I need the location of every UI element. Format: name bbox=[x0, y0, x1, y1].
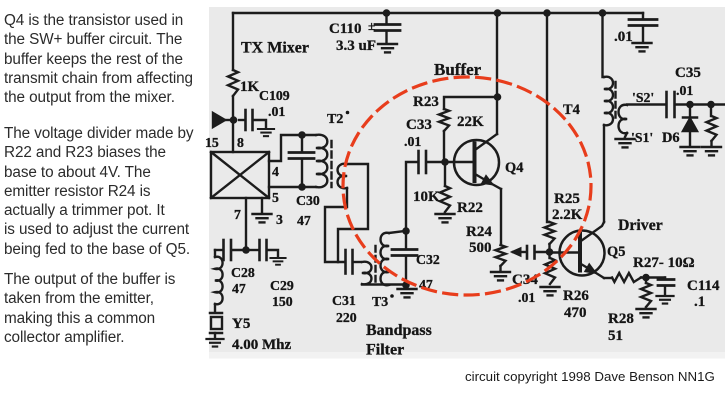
label 'S1' bbox=[631, 130, 653, 145]
wire: output junction to right edge bbox=[690, 103, 725, 105]
svg-text:R26: R26 bbox=[563, 288, 589, 304]
wire: 1K to mixer node bbox=[232, 96, 234, 120]
node: C32 bottom junction bbox=[402, 281, 410, 289]
svg-text:3.3 uF: 3.3 uF bbox=[336, 38, 376, 54]
wire: Q4 emitter down to R24 bbox=[500, 189, 502, 245]
capacitor C30 47 bbox=[289, 135, 320, 228]
wire: T4 secondary top to C35 bbox=[627, 103, 665, 105]
node: C110 tap on rail bbox=[383, 9, 391, 17]
svg-text:22K: 22K bbox=[457, 114, 484, 130]
capacitor .01 (supply bypass, top right) bbox=[614, 13, 657, 45]
ground under C114 bbox=[656, 296, 673, 304]
svg-text:±: ± bbox=[368, 18, 375, 33]
transformer T3 core bbox=[372, 246, 394, 309]
label TX Mixer bbox=[241, 40, 309, 57]
capacitor C109 .01 bbox=[239, 88, 290, 130]
transformer T2 secondary bbox=[338, 164, 347, 189]
wire: R25 to Q5 base node bbox=[548, 244, 550, 252]
transformer T4 core bbox=[614, 82, 616, 121]
capacitor C32 47 bbox=[392, 231, 440, 292]
wire: mixer pin 4 to T2 tank top bbox=[269, 135, 316, 161]
capacitor C110 3.3uF bbox=[329, 13, 400, 54]
svg-text:C32: C32 bbox=[416, 252, 440, 267]
ground under R22 bbox=[436, 214, 455, 222]
svg-text:15: 15 bbox=[205, 135, 219, 150]
svg-text:R22: R22 bbox=[457, 200, 483, 216]
svg-text:T2: T2 bbox=[327, 112, 343, 127]
capacitor C34 .01 bbox=[512, 246, 549, 305]
label 'S2' bbox=[632, 90, 654, 105]
ground under C110 bbox=[378, 44, 397, 52]
svg-text:R25: R25 bbox=[554, 191, 580, 207]
resistor R22 10K bbox=[413, 162, 483, 216]
resistor 1K bbox=[228, 70, 260, 96]
svg-text:C31: C31 bbox=[332, 293, 356, 308]
svg-text:Driver: Driver bbox=[618, 217, 663, 234]
capacitor C114 .1 bbox=[658, 278, 720, 311]
node: collector rail junction bbox=[494, 9, 502, 101]
svg-text:.01: .01 bbox=[404, 134, 421, 149]
svg-text:470: 470 bbox=[564, 305, 587, 321]
wire: T2 secondary bottom to C31 (inner path) bbox=[325, 188, 347, 262]
wire: +V top supply rail bbox=[233, 12, 643, 14]
wire: pin 8 into mixer bbox=[232, 120, 234, 152]
svg-text:R28: R28 bbox=[608, 311, 634, 327]
svg-text:C28: C28 bbox=[231, 265, 255, 280]
svg-text:T3: T3 bbox=[372, 294, 388, 309]
wire: T3 secondary top to C32 top bbox=[389, 231, 405, 233]
node: Q5 base node bbox=[546, 248, 554, 256]
svg-text:C35: C35 bbox=[675, 65, 701, 81]
svg-text:C29: C29 bbox=[270, 278, 294, 293]
resistor R26 470 bbox=[545, 252, 589, 321]
node: Q4 base node bbox=[441, 158, 449, 166]
node: R27/R28/C114 junction bbox=[642, 274, 650, 282]
transformer T3 secondary bbox=[381, 233, 389, 286]
transistor Q5 bbox=[550, 222, 626, 278]
node: C35 output junction bbox=[686, 101, 694, 109]
wire: R23 to base node bbox=[443, 131, 445, 162]
wire: Q5 emitter to R27 bbox=[604, 277, 612, 279]
pin label 5 bbox=[272, 190, 279, 205]
capacitor C31 220 bbox=[332, 250, 361, 325]
wire: bandpass output up to C33 bbox=[406, 162, 417, 231]
svg-text:8: 8 bbox=[237, 135, 244, 150]
svg-text:C110: C110 bbox=[329, 21, 362, 37]
node: tank top junction bbox=[298, 131, 306, 139]
svg-text:C33: C33 bbox=[406, 117, 432, 133]
svg-text:150: 150 bbox=[272, 294, 293, 309]
svg-text:D6: D6 bbox=[662, 130, 680, 146]
ground under D6 bbox=[681, 147, 700, 155]
diode D6 bbox=[662, 105, 697, 147]
ground under R28 bbox=[637, 309, 656, 317]
ground under R26 bbox=[541, 287, 560, 295]
wire: T3 primary bottom rail bbox=[362, 283, 405, 285]
svg-text:Y5: Y5 bbox=[232, 316, 250, 332]
trimmer wiper arrow bbox=[511, 248, 526, 257]
wire: mixer pin 3 to ground bbox=[261, 198, 263, 212]
diode (clipped at scan edge) bbox=[213, 113, 233, 127]
transistor Q4 bbox=[445, 134, 523, 189]
svg-text:C109: C109 bbox=[259, 88, 290, 103]
capacitor C28 47 bbox=[215, 240, 255, 296]
svg-text:47: 47 bbox=[232, 281, 246, 296]
pin label 15 bbox=[205, 135, 219, 150]
svg-text:.01: .01 bbox=[676, 83, 693, 98]
crystal Y5 4.00 Mhz bbox=[210, 304, 292, 353]
inductor at scan edge bbox=[215, 250, 223, 304]
svg-text:4: 4 bbox=[272, 164, 279, 179]
svg-text:3: 3 bbox=[276, 212, 283, 227]
svg-text:500: 500 bbox=[469, 240, 492, 256]
label Driver bbox=[618, 217, 663, 234]
svg-text:10K: 10K bbox=[413, 189, 440, 205]
wire: Q4 collector up to rail bbox=[496, 13, 498, 134]
label Bandpass Filter bbox=[366, 322, 432, 359]
svg-text:5: 5 bbox=[272, 190, 279, 205]
node: R25 rail junction bbox=[543, 9, 551, 17]
wire: rail down to T4 bbox=[603, 13, 605, 77]
wire: R27 to output node bbox=[641, 276, 665, 278]
annotation: red dashed buffer circle bbox=[343, 77, 591, 295]
ground under bypass cap bbox=[633, 43, 652, 51]
node: bandpass output junction bbox=[402, 227, 410, 235]
wire: T2 secondary top to C31 (outer path) bbox=[338, 164, 368, 262]
resistor R25 2.2K bbox=[545, 191, 583, 244]
svg-text:C30: C30 bbox=[296, 193, 320, 208]
svg-text:2.2K: 2.2K bbox=[552, 207, 583, 223]
resistor R27 10ohm bbox=[612, 255, 695, 282]
transformer T2 core bbox=[330, 141, 332, 187]
pin label 4 bbox=[272, 164, 279, 179]
svg-text:.01: .01 bbox=[518, 290, 535, 305]
resistor R28 51 bbox=[608, 278, 651, 345]
transformer T3 primary bbox=[362, 262, 371, 285]
node: pin7 junction bbox=[242, 246, 250, 254]
svg-text:T4: T4 bbox=[563, 102, 580, 118]
ground under terminating resistor bbox=[702, 147, 721, 155]
label Buffer bbox=[434, 60, 482, 79]
svg-text:.1: .1 bbox=[694, 294, 705, 310]
node: tank bottom junction bbox=[298, 183, 306, 191]
svg-text:'S2': 'S2' bbox=[632, 90, 654, 105]
svg-text:Filter: Filter bbox=[366, 342, 404, 359]
ground under C32/T3 bbox=[398, 289, 417, 297]
ground under T4 secondary bbox=[616, 139, 635, 147]
transformer T4 secondary bbox=[619, 105, 627, 133]
wire: left branch down from rail to 1K bbox=[232, 13, 234, 70]
svg-text:TX Mixer: TX Mixer bbox=[241, 40, 309, 57]
wire: T4 secondary bottom to ground bbox=[625, 133, 627, 137]
node: terminating resistor junction bbox=[707, 101, 715, 109]
svg-text:220: 220 bbox=[336, 310, 357, 325]
svg-text:R24: R24 bbox=[466, 224, 492, 240]
terminating resistor bbox=[707, 105, 717, 147]
resistor R23 22K bbox=[413, 94, 484, 131]
transformer T2 primary bbox=[316, 111, 349, 188]
wire: rail down to R25 bbox=[547, 13, 549, 222]
svg-text:Q5: Q5 bbox=[607, 244, 625, 260]
transformer T4 primary bbox=[563, 77, 613, 126]
svg-text:'S1': 'S1' bbox=[631, 130, 653, 145]
svg-text:7: 7 bbox=[234, 207, 241, 222]
capacitor C33 .01 bbox=[404, 117, 445, 173]
svg-text:Bandpass: Bandpass bbox=[366, 322, 432, 339]
wire: R23 top feed from collector rail bbox=[444, 97, 498, 109]
ground under C109 bbox=[258, 129, 274, 136]
svg-text:4.00 Mhz: 4.00 Mhz bbox=[232, 337, 292, 353]
svg-text:.01: .01 bbox=[268, 104, 285, 119]
ground at mixer pin 3 bbox=[253, 212, 284, 227]
ground under R24 bbox=[491, 266, 510, 280]
pin label 8 bbox=[237, 135, 244, 150]
mixer U5 (doubly balanced mixer box with X) bbox=[211, 152, 269, 198]
svg-text:.01: .01 bbox=[614, 29, 633, 45]
node: mixer pin8 junction bbox=[230, 116, 238, 124]
svg-text:1K: 1K bbox=[240, 79, 260, 95]
svg-text:R23: R23 bbox=[413, 94, 439, 110]
svg-text:C114: C114 bbox=[687, 278, 720, 294]
svg-text:47: 47 bbox=[297, 213, 311, 228]
node: T4 rail junction bbox=[599, 9, 607, 17]
resistor R24 500 (trimmer) bbox=[466, 224, 506, 266]
capacitor C35 .01 bbox=[667, 65, 701, 117]
ground under Y5 bbox=[206, 339, 223, 347]
pin label 7 bbox=[234, 207, 241, 222]
capacitor C29 150 bbox=[246, 240, 294, 309]
wire: mixer pin 7 down bbox=[245, 198, 247, 250]
svg-text:R27- 10Ω: R27- 10Ω bbox=[633, 255, 695, 271]
ground after C29 bbox=[270, 258, 285, 265]
svg-text:Q4: Q4 bbox=[505, 160, 523, 176]
svg-text:51: 51 bbox=[608, 328, 623, 344]
wire: Q5 collector up to T4 bbox=[603, 125, 605, 222]
wire: mixer pin 5 to T2 tank bottom bbox=[269, 186, 316, 188]
